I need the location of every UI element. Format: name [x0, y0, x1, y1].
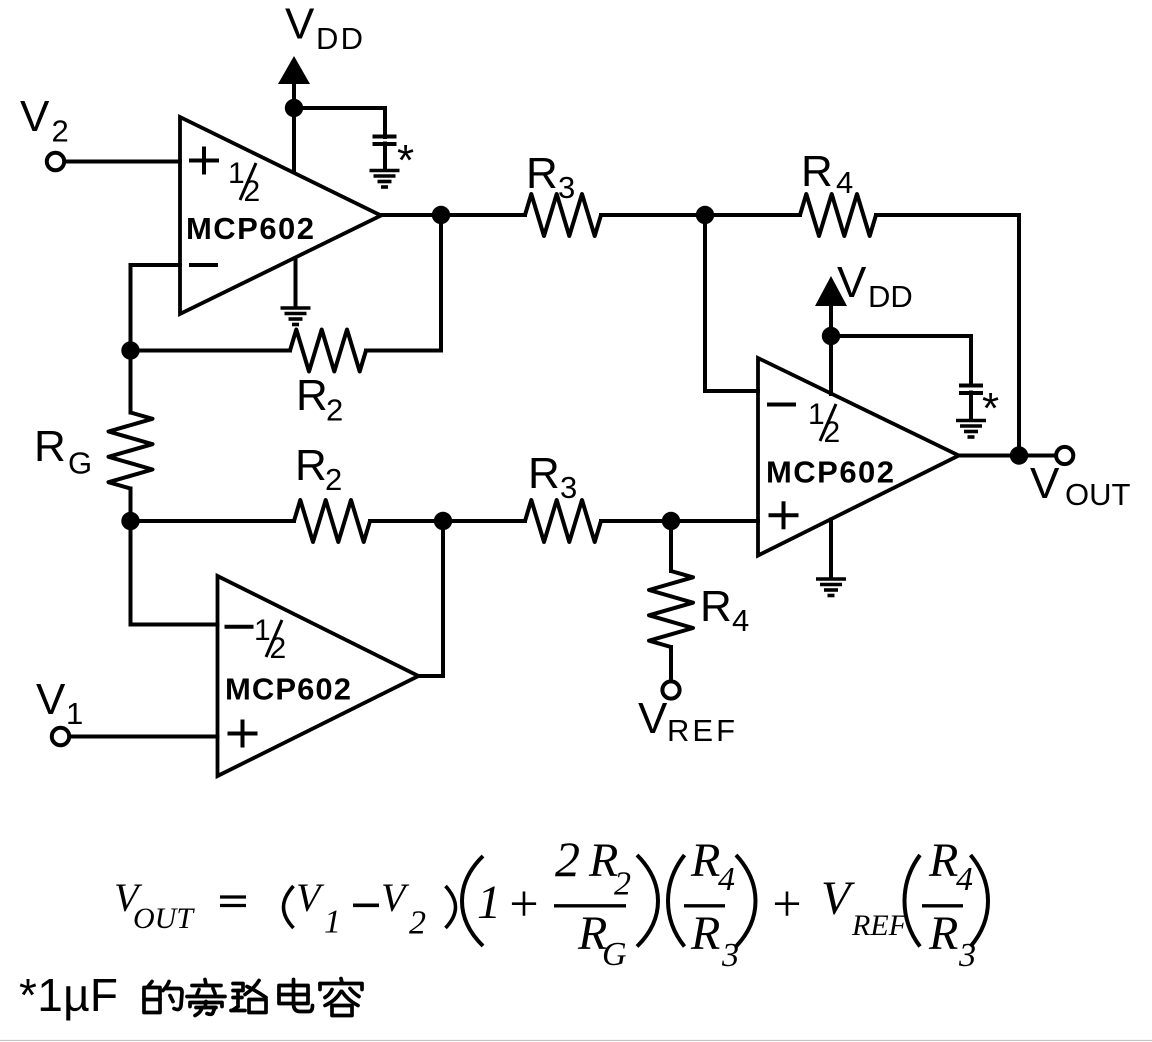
svg-text:1: 1: [254, 614, 271, 647]
svg-text:REF: REF: [667, 713, 735, 748]
svg-text:4: 4: [956, 861, 973, 898]
wire C1 to ground: [383, 144, 387, 171]
wire V2 to U1a + input: [64, 160, 180, 164]
formula VOUT equation: [114, 831, 976, 974]
formula big parentheses: [462, 855, 988, 947]
resistor R3 (top): [525, 194, 601, 236]
svg-text:R: R: [690, 834, 720, 887]
svg-text:R: R: [34, 422, 66, 471]
svg-text:2: 2: [244, 175, 261, 208]
svg-text:DD: DD: [868, 279, 913, 314]
svg-text:R: R: [295, 441, 327, 490]
capacitor C1 plates: [373, 137, 397, 145]
label R3 bottom: [528, 449, 577, 505]
svg-text:4: 4: [718, 861, 735, 898]
wire VDD2 node to capacitor C2: [831, 336, 971, 385]
svg-text:3: 3: [721, 937, 739, 974]
wire node E to R3b: [443, 519, 525, 523]
op-amp U1a triangle: [180, 117, 381, 314]
node VOUT junction: [1010, 446, 1028, 464]
label VREF: [638, 694, 735, 748]
svg-text:*1µF: *1µF: [19, 969, 118, 1021]
svg-text:MCP602: MCP602: [766, 455, 894, 490]
svg-text:1: 1: [228, 157, 245, 190]
wire U1a ground stem: [294, 258, 298, 307]
terminal V1: [52, 728, 69, 745]
node VDD2 junction: [822, 327, 840, 345]
svg-text:R: R: [690, 907, 720, 960]
svg-text:2: 2: [555, 831, 580, 887]
wire V1 to U1b + input: [69, 735, 218, 739]
svg-text:2: 2: [326, 393, 343, 428]
svg-text:OUT: OUT: [133, 902, 195, 935]
wire U1b output feedback to node E: [419, 521, 444, 676]
svg-text:REF: REF: [851, 909, 908, 942]
svg-text:MCP602: MCP602: [186, 211, 314, 246]
label R2 top: [296, 371, 343, 428]
svg-text:V: V: [837, 258, 867, 307]
svg-text:G: G: [68, 446, 92, 481]
svg-text:1: 1: [477, 876, 501, 929]
VDD2 arrow: [815, 276, 847, 306]
terminal V2: [47, 153, 64, 170]
wire VDD2 stem: [829, 306, 833, 336]
wire R3b to node F: [601, 519, 671, 523]
page bottom hairline: [0, 1040, 1152, 1042]
hanzi lu 路: [231, 981, 266, 1013]
svg-text:OUT: OUT: [1065, 477, 1131, 512]
label V1: [36, 675, 83, 731]
svg-text:2: 2: [409, 905, 426, 942]
node E junction: [434, 512, 452, 530]
wire VDD2 node to U2 top edge: [829, 336, 833, 394]
op-amp U2 triangle: [758, 358, 959, 556]
op-amp U1b plus input symbol: [228, 720, 258, 748]
svg-text:2: 2: [824, 416, 841, 449]
label R4 top: [801, 147, 853, 200]
svg-text:2: 2: [270, 632, 287, 665]
svg-text:R: R: [296, 371, 328, 420]
resistor R2 (bottom): [294, 500, 370, 542]
wire RG to node D: [129, 489, 133, 522]
label V2: [20, 92, 69, 149]
wire node A to RG: [129, 351, 133, 413]
svg-text:4: 4: [732, 603, 749, 638]
op-amp U2 plus input symbol: [769, 501, 799, 529]
wire R2b to node E: [370, 519, 443, 523]
label R4 bottom: [700, 582, 749, 638]
hanzi de 的: [144, 982, 182, 1013]
svg-text:1: 1: [808, 398, 825, 431]
svg-text:G: G: [602, 936, 627, 973]
op-amp U1b half label: [254, 614, 286, 665]
wire C2 to ground: [969, 393, 973, 421]
svg-text:V: V: [1030, 459, 1060, 508]
svg-text:*: *: [982, 384, 999, 433]
svg-text:+: +: [769, 876, 804, 933]
node VDD1 junction: [285, 99, 303, 117]
op-amp U1b minus input symbol: [225, 625, 254, 629]
note Chinese text 的旁路电容: [144, 979, 362, 1016]
op-amp U2 minus input symbol: [767, 403, 796, 407]
wire U1a output to R3a: [381, 213, 525, 217]
node B junction: [432, 206, 450, 224]
wire node B feedback down: [366, 215, 441, 351]
op-amp U1b triangle: [218, 576, 419, 776]
resistor R2 (top feedback): [290, 330, 366, 372]
wire node D to R2b: [131, 519, 295, 523]
label VOUT: [1030, 459, 1131, 512]
ground below C2: [956, 421, 986, 438]
resistor RG: [109, 413, 153, 489]
label VDD1: [285, 0, 363, 56]
wire node C to R4a: [705, 213, 800, 217]
svg-text:2: 2: [614, 866, 631, 903]
svg-text:+: +: [506, 876, 541, 933]
op-amp U1a minus input symbol: [189, 263, 218, 267]
node F junction: [662, 512, 680, 530]
node A junction: [121, 341, 139, 359]
resistor R3 (bottom): [525, 500, 601, 542]
op-amp U1a plus input symbol: [189, 147, 219, 175]
wire VDD1 node to capacitor C1: [294, 108, 385, 137]
svg-text:R: R: [700, 582, 732, 631]
label RG: [34, 422, 92, 481]
wire U2 ground stem: [829, 520, 833, 579]
wire VDD1 node to U1a top edge: [292, 108, 296, 172]
wire U2 output to VOUT: [959, 454, 1056, 458]
wire R3a to node C: [601, 213, 705, 217]
svg-text:3: 3: [560, 470, 577, 505]
wire VDD1 stem: [292, 84, 296, 108]
op-amp U2 half label: [808, 398, 840, 449]
svg-text:3: 3: [558, 170, 575, 205]
label VDD2: [837, 258, 913, 314]
svg-text:V: V: [20, 92, 50, 141]
svg-text:2: 2: [52, 114, 69, 149]
svg-text:V: V: [285, 0, 315, 49]
wire U1a - input to node A: [131, 265, 181, 351]
op-amp U1a half label: [228, 157, 260, 208]
wire node F to R4b: [669, 521, 673, 571]
label R3 top: [526, 149, 575, 205]
VDD1 arrow: [278, 56, 310, 84]
ground below U2: [816, 579, 846, 596]
wire node C to U2 - input: [705, 215, 758, 391]
svg-text:V: V: [36, 675, 66, 724]
hanzi rong 容: [320, 979, 362, 1016]
svg-text:4: 4: [836, 165, 853, 200]
wire R4a to right rail: [876, 215, 1019, 456]
wire node D to U1b - input: [131, 521, 218, 625]
svg-text:1: 1: [324, 904, 341, 941]
svg-text:V: V: [821, 872, 855, 925]
svg-text:R: R: [528, 449, 560, 498]
svg-text:R: R: [526, 149, 558, 198]
svg-text:2: 2: [325, 462, 342, 497]
svg-text:1: 1: [66, 696, 83, 731]
terminal VOUT: [1056, 447, 1073, 464]
resistor R4 (bottom, to VREF): [649, 571, 693, 647]
capacitor C2 plates: [959, 386, 983, 394]
terminal VREF: [662, 681, 679, 698]
wire R2a to node A: [131, 349, 291, 353]
svg-text:R: R: [801, 147, 833, 196]
node D junction: [121, 512, 139, 530]
hanzi dian 电: [279, 980, 313, 1012]
svg-text:V: V: [638, 694, 668, 743]
svg-text:R: R: [928, 834, 958, 887]
svg-text:MCP602: MCP602: [225, 672, 351, 707]
wire node F to U1b + input of U2: [671, 519, 758, 523]
node C junction: [696, 206, 714, 224]
label R2 bottom: [295, 441, 342, 497]
hanzi pang 旁: [187, 980, 225, 1016]
svg-text:*: *: [397, 136, 414, 185]
ground below U1a: [281, 308, 311, 325]
svg-text:R: R: [928, 907, 958, 960]
ground below C1: [370, 171, 400, 188]
resistor R4 (top): [800, 194, 876, 236]
wire R4b to VREF terminal: [669, 647, 673, 681]
